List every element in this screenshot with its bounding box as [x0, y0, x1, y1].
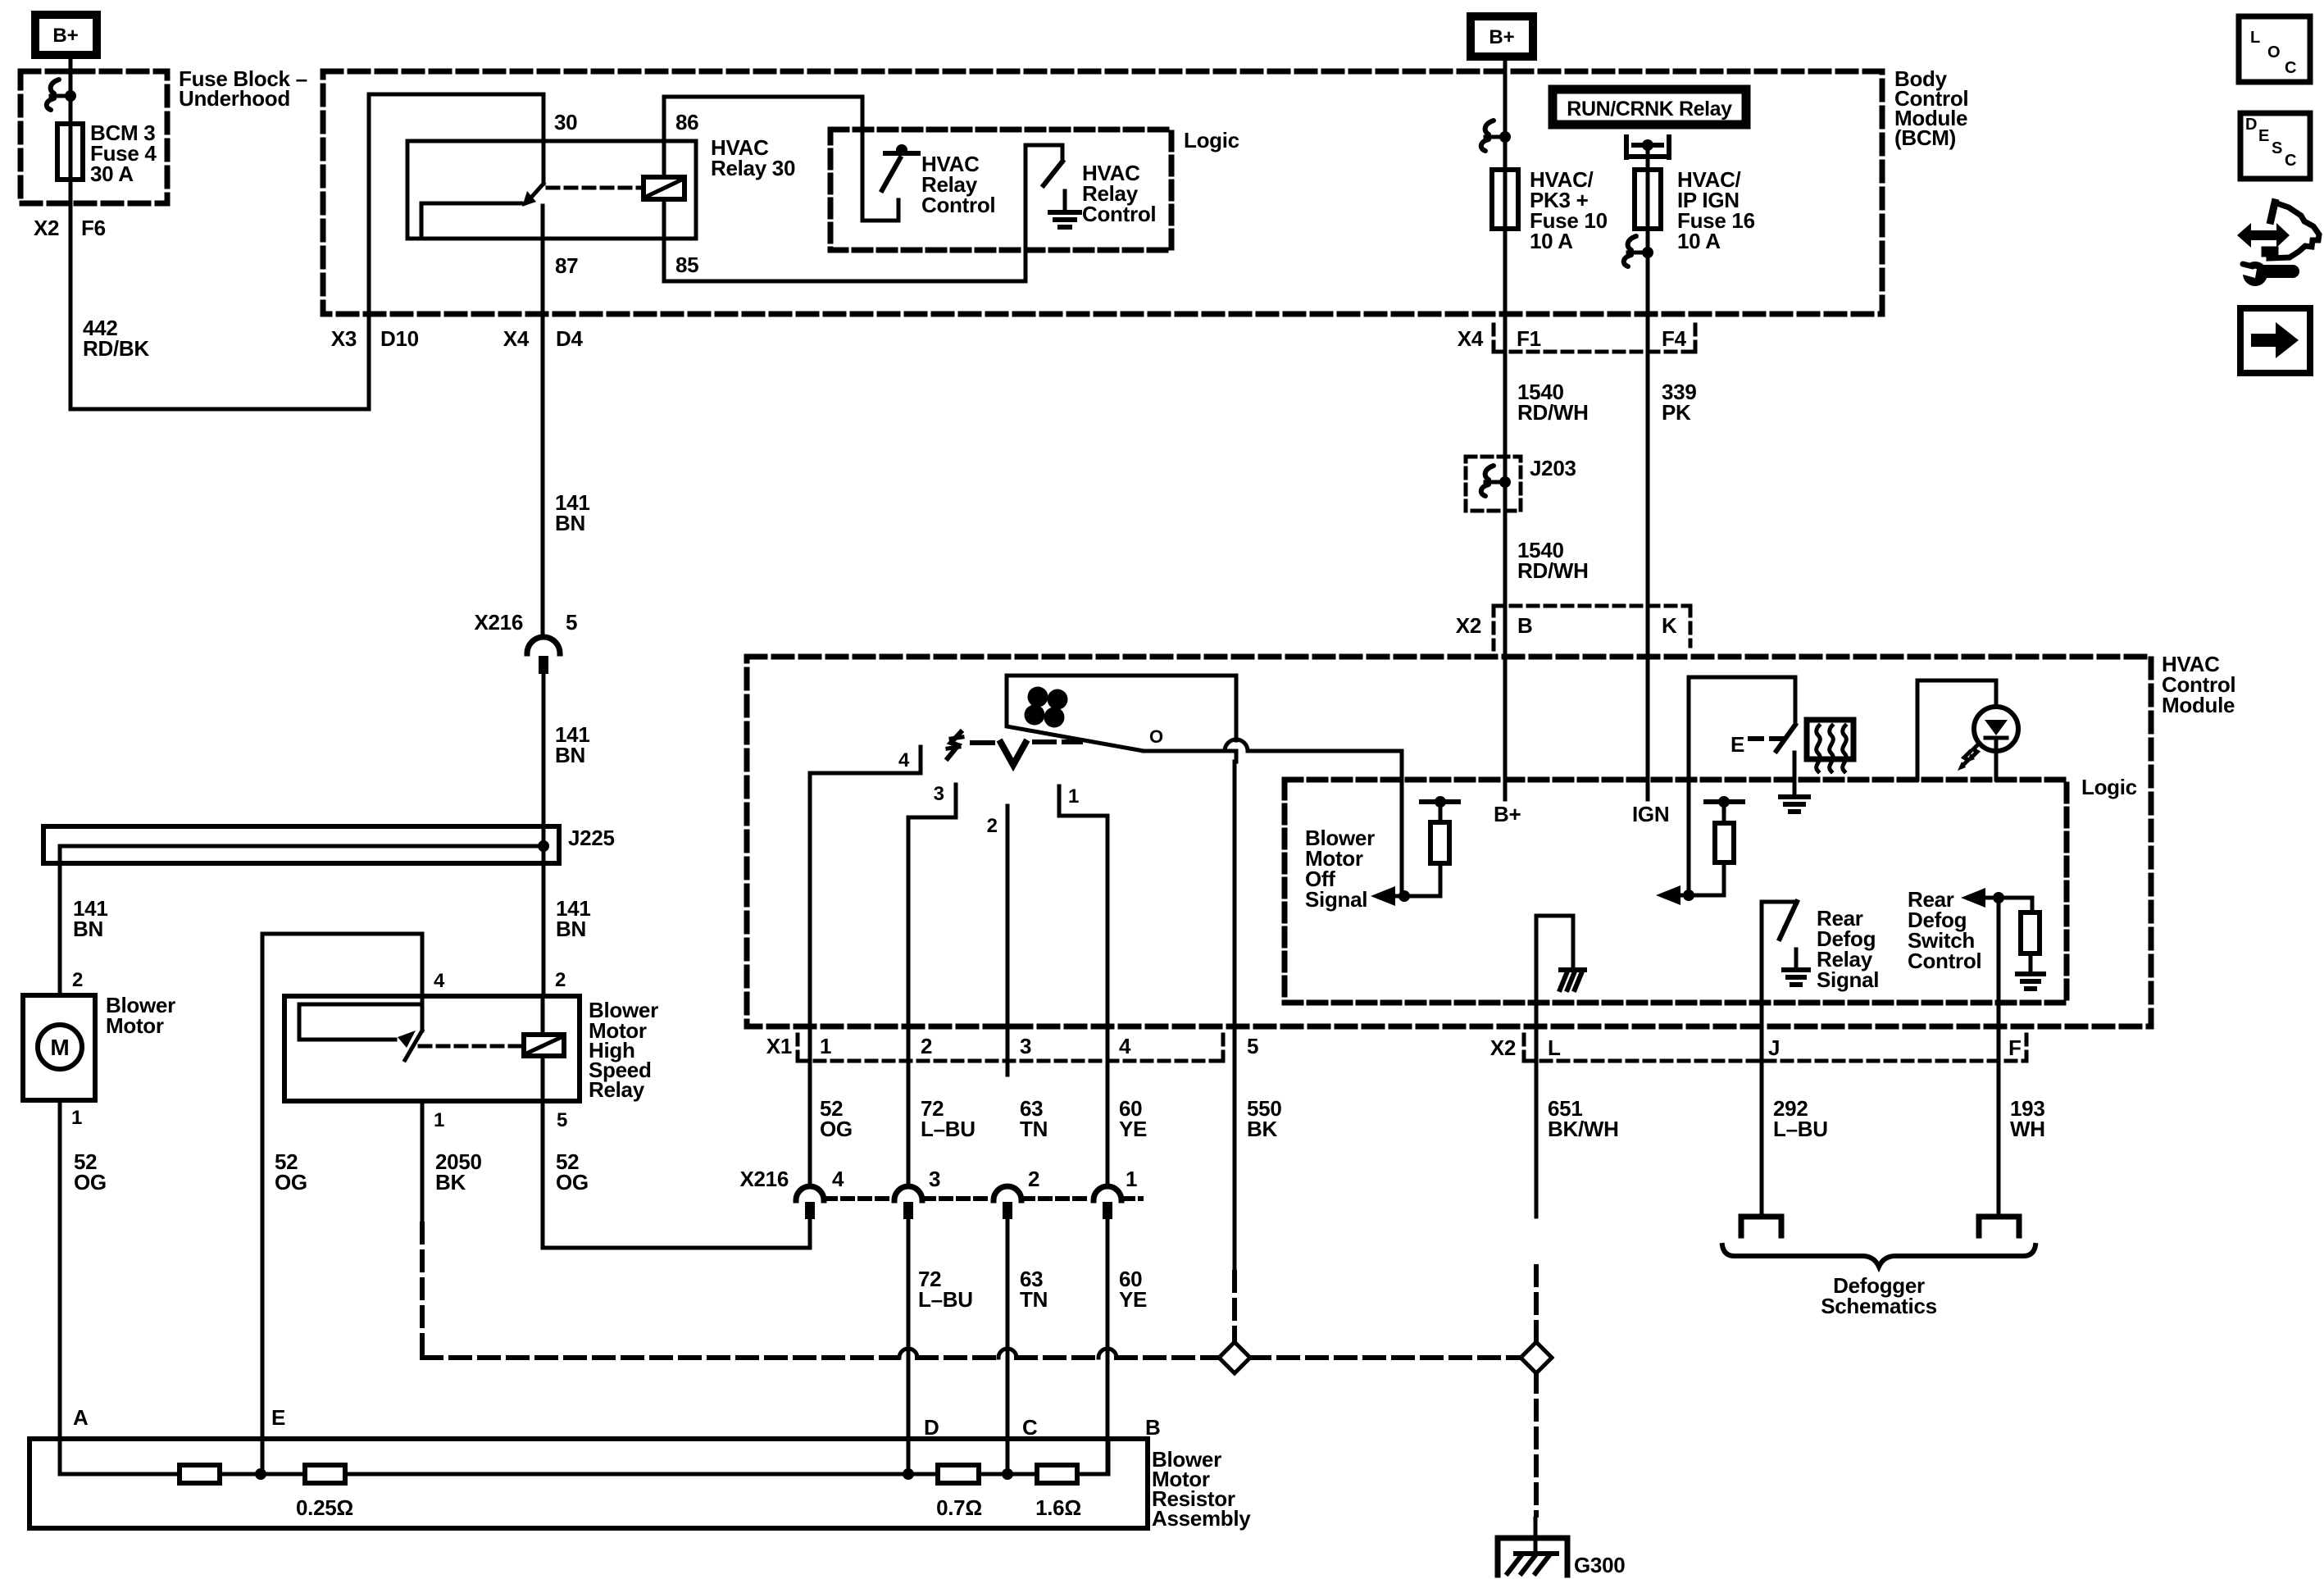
connector X1 strip	[796, 1035, 800, 1061]
wire 141 BN from D4	[541, 314, 545, 637]
ground loop to X2 L	[1535, 916, 1539, 1217]
svg-text:5: 5	[566, 610, 577, 635]
relay 30 armature	[530, 184, 543, 199]
clip junction below B+	[1485, 121, 1494, 134]
svg-text:B: B	[1517, 613, 1532, 638]
Fuse Block - Underhood box	[20, 71, 167, 203]
svg-text:PK: PK	[1662, 400, 1691, 425]
svg-text:Logic: Logic	[1184, 128, 1239, 152]
svg-text:1: 1	[1126, 1167, 1137, 1191]
ground at relay control 2	[1063, 191, 1067, 212]
svg-text:BK: BK	[435, 1170, 466, 1194]
svg-text:A: A	[73, 1405, 89, 1430]
svg-text:L: L	[1548, 1035, 1561, 1060]
defogger terminal J	[1739, 1217, 1744, 1235]
chassis ground hatch	[1561, 967, 1585, 972]
svg-text:30: 30	[554, 110, 577, 134]
svg-text:E: E	[271, 1405, 285, 1430]
svg-text:J203: J203	[1530, 456, 1576, 480]
svg-text:J225: J225	[568, 826, 615, 850]
svg-text:OG: OG	[556, 1170, 589, 1194]
defogger brace	[1722, 1245, 2035, 1267]
svg-text:YE: YE	[1119, 1117, 1147, 1141]
wire F from switch control	[1997, 898, 2001, 1217]
svg-text:2: 2	[1028, 1167, 1039, 1191]
relay 30 control link dashes	[548, 186, 642, 190]
LED indicator	[1917, 679, 1996, 683]
svg-text:X2: X2	[34, 216, 59, 240]
RUN/CRNK relay output connector	[1624, 137, 1629, 157]
relay 30 fixed contact	[421, 202, 521, 206]
svg-text:F1: F1	[1517, 326, 1541, 351]
svg-text:87: 87	[555, 253, 578, 278]
high speed relay coil	[524, 1035, 564, 1056]
fuse 10 HVAC/PK3	[1492, 170, 1518, 229]
svg-text:BK/WH: BK/WH	[1548, 1117, 1619, 1141]
blower motor resistor assembly box	[30, 1439, 1148, 1528]
svg-text:10 A: 10 A	[1530, 229, 1573, 253]
svg-text:E: E	[2258, 127, 2269, 145]
icon vehicle with wrench	[2237, 223, 2290, 248]
E switch loop wire	[1687, 677, 1691, 895]
svg-text:IGN: IGN	[1632, 802, 1669, 826]
relay 30 contact rails	[407, 139, 696, 143]
svg-text:5: 5	[1247, 1034, 1258, 1058]
rear defog relay signal switch	[1760, 902, 1764, 1217]
splice pack J225	[43, 826, 559, 863]
dashed net to diamonds	[420, 1349, 425, 1358]
fan switch O output wire with hop	[1144, 749, 1225, 753]
HVAC relay control switch 1	[885, 151, 918, 156]
wire 85 to logic	[664, 280, 1026, 284]
svg-text:Signal: Signal	[1305, 887, 1367, 912]
wires to X1	[808, 773, 812, 1186]
svg-text:85: 85	[675, 253, 698, 277]
svg-text:O: O	[2267, 43, 2281, 61]
svg-text:TN: TN	[1020, 1287, 1048, 1312]
wire 2050 BK relay pin 1	[421, 1101, 425, 1222]
svg-text:4: 4	[434, 970, 445, 992]
svg-text:E: E	[1730, 732, 1744, 757]
fan switch contact 1	[1057, 786, 1062, 816]
svg-text:X216: X216	[474, 610, 523, 635]
svg-text:C: C	[2285, 152, 2296, 170]
svg-text:Module: Module	[2162, 693, 2235, 717]
svg-text:L–BU: L–BU	[1773, 1117, 1828, 1141]
svg-text:L–BU: L–BU	[918, 1287, 973, 1312]
connector X216 pin 5	[527, 637, 560, 653]
pull-down resistor to ground	[2031, 898, 2035, 912]
Body Control Module box	[323, 71, 1882, 314]
wire 72 L-BU to D	[907, 1219, 911, 1474]
fan switch detent V	[1001, 743, 1026, 765]
svg-text:3: 3	[929, 1167, 940, 1191]
connector X2 B K strip	[1494, 604, 1690, 608]
fan icon	[1028, 687, 1048, 708]
svg-text:TN: TN	[1020, 1117, 1048, 1141]
high speed relay control link dashes	[420, 1044, 521, 1049]
svg-text:3: 3	[1020, 1034, 1031, 1058]
svg-text:Control: Control	[1908, 949, 1981, 973]
svg-text:B+: B+	[1494, 802, 1521, 826]
HVAC Control Module box	[747, 657, 2151, 1026]
high speed relay contact rails	[299, 1003, 422, 1007]
wire 141 BN below X216	[542, 674, 546, 826]
svg-text:BK: BK	[1247, 1117, 1277, 1141]
svg-text:B: B	[1145, 1415, 1160, 1440]
svg-text:F: F	[2008, 1035, 2022, 1060]
relay HVAC Relay 30 : 30 feed wire	[369, 93, 543, 97]
svg-text:BN: BN	[555, 743, 585, 767]
BCM Logic box	[830, 130, 1171, 250]
svg-text:D: D	[924, 1415, 939, 1440]
blower motor	[23, 995, 95, 1100]
svg-text:Relay: Relay	[589, 1077, 645, 1102]
svg-text:30 A: 30 A	[90, 162, 134, 186]
wire fuse16 down	[1646, 170, 1650, 229]
svg-text:Assembly: Assembly	[1152, 1506, 1251, 1531]
svg-text:Control: Control	[1082, 202, 1156, 226]
svg-text:4: 4	[898, 749, 910, 771]
E switch arm	[1776, 725, 1795, 751]
svg-text:BN: BN	[73, 917, 103, 941]
svg-text:B+: B+	[52, 25, 78, 47]
fan switch body	[1007, 676, 1236, 762]
svg-text:D4: D4	[556, 326, 583, 351]
rear window defog icon	[1807, 720, 1853, 759]
svg-text:4: 4	[832, 1167, 844, 1191]
svg-text:Signal: Signal	[1817, 967, 1879, 992]
relay 30 pin 87 wire	[541, 206, 545, 314]
wire B+ to fuse	[69, 59, 73, 124]
svg-text:C: C	[1022, 1415, 1038, 1440]
svg-text:F4: F4	[1662, 326, 1687, 351]
connector X4 F1 F4 strip	[1492, 325, 1496, 352]
icon LOC	[2239, 16, 2310, 82]
relay 30 coil	[644, 177, 684, 199]
wire 63 TN to C	[1006, 1219, 1010, 1474]
svg-text:X216: X216	[739, 1167, 789, 1191]
svg-text:2: 2	[555, 969, 566, 991]
fuse 16 HVAC/IP IGN	[1635, 170, 1661, 229]
relay pin 4 wire	[262, 932, 422, 936]
fuse F6 BCM 3 Fuse 4 30 A	[57, 124, 83, 180]
rear defog relay feed arrow	[1656, 885, 1680, 905]
svg-text:X4: X4	[1458, 326, 1484, 351]
svg-text:(BCM): (BCM)	[1894, 125, 1956, 150]
IGN pull-up resistor	[1706, 799, 1743, 804]
icon forward arrow	[2240, 308, 2310, 373]
blower motor high speed relay box	[284, 996, 580, 1101]
splice diamond 651 BK/WH	[1521, 1342, 1552, 1373]
svg-text:1: 1	[434, 1109, 444, 1131]
svg-text:D10: D10	[380, 326, 419, 351]
svg-text:O: O	[1149, 726, 1163, 747]
svg-text:S: S	[2272, 139, 2282, 157]
wire 141 BN to blower motor	[58, 846, 62, 995]
wire 442 RD/BK	[69, 180, 73, 409]
blower motor off signal arrow	[1371, 886, 1395, 906]
wire B+ to fuse 10	[1503, 61, 1508, 170]
RUN/CRNK Relay label box	[1553, 89, 1746, 125]
svg-text:2: 2	[921, 1034, 932, 1058]
blower off pull-up resistor	[1421, 799, 1458, 804]
clip junction at fuse block	[51, 80, 59, 93]
svg-text:X2: X2	[1456, 613, 1481, 638]
svg-text:B+: B+	[1489, 26, 1514, 48]
svg-text:YE: YE	[1119, 1287, 1147, 1312]
wire 52 OG motor to A	[58, 1100, 62, 1474]
wire 141 BN to high speed relay	[542, 863, 546, 996]
svg-text:OG: OG	[820, 1117, 853, 1141]
svg-text:OG: OG	[74, 1170, 107, 1194]
connector X2 L J F strip	[1522, 1035, 1526, 1061]
svg-text:OG: OG	[275, 1170, 307, 1194]
icon DESC	[2240, 113, 2310, 179]
ground G300	[1534, 1518, 1538, 1554]
wire to BCM X3 D10	[70, 407, 369, 412]
wire 60 YE to B	[1106, 1219, 1110, 1474]
fan switch contact 4	[919, 747, 923, 773]
svg-text:1: 1	[71, 1107, 82, 1129]
svg-text:X1: X1	[766, 1034, 792, 1058]
HVAC relay control switch 2	[1026, 143, 1062, 148]
battery feed B+ (right)	[1471, 16, 1533, 57]
svg-text:Control: Control	[921, 193, 995, 217]
svg-text:L: L	[2250, 29, 2260, 47]
svg-text:5: 5	[557, 1109, 567, 1131]
svg-text:J: J	[1768, 1035, 1780, 1060]
svg-text:1: 1	[1068, 785, 1079, 808]
svg-text:F6: F6	[81, 216, 106, 240]
svg-text:Underhood: Underhood	[179, 86, 290, 111]
svg-text:1: 1	[820, 1034, 831, 1058]
svg-text:RD/BK: RD/BK	[83, 336, 149, 361]
E switch lower contact and ground	[1793, 753, 1797, 796]
svg-text:X2: X2	[1490, 1035, 1516, 1060]
svg-text:C: C	[2285, 59, 2296, 77]
svg-text:BN: BN	[555, 511, 585, 535]
svg-text:0.7Ω: 0.7Ω	[936, 1495, 982, 1520]
svg-text:K: K	[1662, 613, 1677, 638]
svg-text:RUN/CRNK Relay: RUN/CRNK Relay	[1567, 98, 1732, 121]
fan switch wiper dashes	[948, 732, 961, 758]
wire 86 to logic	[664, 95, 862, 99]
fan switch contact 2	[1006, 806, 1010, 1075]
ground at rear defog relay signal	[1794, 949, 1799, 970]
svg-text:Motor: Motor	[106, 1013, 164, 1038]
svg-text:BN: BN	[556, 917, 586, 941]
svg-text:RD/WH: RD/WH	[1517, 558, 1589, 583]
svg-text:WH: WH	[2010, 1117, 2045, 1141]
svg-text:L–BU: L–BU	[921, 1117, 976, 1141]
resistor bus	[60, 1472, 180, 1477]
rear defog switch control arrow	[1961, 888, 1985, 908]
svg-text:10 A: 10 A	[1677, 229, 1721, 253]
defogger terminal F	[1976, 1217, 1982, 1235]
svg-text:4: 4	[1119, 1034, 1131, 1058]
svg-text:Relay 30: Relay 30	[711, 156, 795, 180]
wire 52 OG relay pin 5	[541, 1101, 545, 1248]
svg-text:86: 86	[675, 110, 698, 134]
battery feed B+ (left)	[35, 15, 97, 55]
svg-text:1.6Ω: 1.6Ω	[1035, 1495, 1081, 1520]
svg-text:Schematics: Schematics	[1821, 1294, 1937, 1318]
wire fuse10 to X4 F1	[1503, 170, 1508, 229]
fan switch contact 3	[954, 785, 958, 817]
svg-text:D: D	[2245, 116, 2257, 134]
splice diamond 550 BK	[1219, 1342, 1250, 1373]
clip junction below fuse 16	[1628, 236, 1636, 250]
HVAC CM Logic box	[1285, 780, 2067, 1003]
wire to fuse 16	[1646, 145, 1650, 170]
svg-text:Logic: Logic	[2081, 775, 2137, 799]
wire 52 OG E branch	[261, 934, 265, 1474]
svg-text:X4: X4	[503, 326, 530, 351]
splice J203	[1466, 457, 1521, 511]
high speed relay armature	[405, 1031, 422, 1060]
svg-text:X3: X3	[331, 326, 357, 351]
svg-text:0.25Ω: 0.25Ω	[296, 1495, 353, 1520]
svg-text:2: 2	[987, 815, 998, 837]
svg-text:M: M	[50, 1035, 69, 1060]
svg-text:3: 3	[934, 783, 944, 805]
svg-text:2: 2	[72, 969, 83, 991]
svg-text:RD/WH: RD/WH	[1517, 400, 1589, 425]
svg-text:G300: G300	[1574, 1553, 1625, 1577]
